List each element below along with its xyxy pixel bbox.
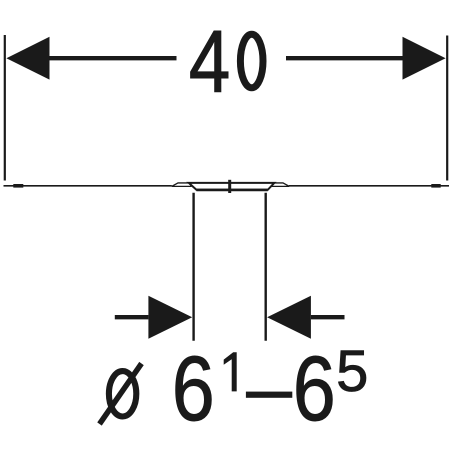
arrowhead right of dimension 40 [403, 37, 446, 80]
svg-text:4: 4 [189, 13, 230, 111]
dimension boundary line right [265, 193, 267, 341]
label superscript 1 [224, 352, 237, 391]
profile left flange [172, 183, 191, 186]
profile center tick [228, 180, 231, 193]
profile central slab [189, 183, 274, 190]
extension line left [4, 35, 6, 181]
dimension line 40 left segment [49, 56, 177, 60]
svg-text:6: 6 [172, 338, 215, 441]
arrow tail left of bottom dimension [115, 315, 149, 319]
label 40 : digit 0 drawn as ellipse [240, 34, 263, 88]
arrowhead left of bottom dimension [148, 296, 192, 339]
profile slab bottom edge [196, 189, 267, 192]
svg-text:6: 6 [293, 338, 336, 441]
arrow tail right of bottom dimension [311, 315, 345, 319]
floor line right [289, 185, 449, 187]
label range dash [246, 392, 292, 398]
floor line end tick right [431, 184, 440, 188]
dimension boundary line left [192, 193, 194, 341]
label diameter symbol circle [109, 371, 136, 416]
profile right flange [270, 183, 289, 186]
label diameter symbol slash [100, 364, 142, 425]
dimension line 40 right segment [286, 56, 403, 60]
svg-text:5: 5 [336, 339, 368, 404]
floor line end tick left [13, 184, 23, 188]
floor line left [4, 185, 172, 187]
arrowhead left of dimension 40 [6, 37, 49, 80]
extension line right [446, 36, 448, 181]
arrowhead right of bottom dimension [267, 296, 311, 339]
